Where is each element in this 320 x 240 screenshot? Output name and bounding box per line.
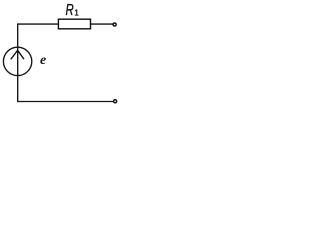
node: top output terminal <box>113 23 116 26</box>
resistor R1 <box>58 19 90 29</box>
wire: top rail from R1 left lead, down left rail through source e, along bottom rail to output terminal <box>18 24 113 101</box>
source e (circle body) <box>3 47 31 75</box>
svg-text:R: R <box>66 2 75 19</box>
svg-text:e: e <box>40 52 46 67</box>
node: bottom output terminal <box>114 100 117 103</box>
svg-text:1: 1 <box>74 7 79 17</box>
wire: R1 right lead to top output terminal <box>91 23 113 25</box>
source e arrow head <box>11 50 24 59</box>
